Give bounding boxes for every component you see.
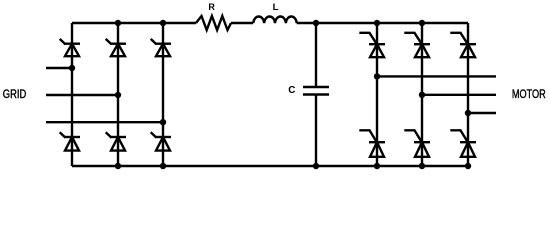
capacitor C (303, 23, 329, 166)
junction bottom rail / inverter leg3 (465, 163, 471, 169)
wire rectifier leg 1 (71, 23, 73, 166)
junction bottom rail / inverter leg1 (374, 163, 380, 169)
junction bottom rail / rectifier leg3 (160, 163, 166, 169)
wire bottom DC rail (72, 165, 468, 167)
wire motor phase 1 (377, 75, 496, 77)
wire between R and L (231, 22, 253, 24)
thyristor T4 (rectifier leg1 bottom) (60, 132, 80, 150)
junction top rail / inverter leg2 (419, 20, 425, 26)
junction grid phase A / leg1 (69, 65, 75, 71)
wire grid phase C (46, 121, 163, 123)
wire rectifier leg 3 (162, 23, 164, 166)
switch S3 (inverter leg3 top) (450, 33, 476, 57)
switch S2 (inverter leg2 top) (404, 33, 430, 57)
wire grid phase A (46, 67, 72, 69)
wire inverter leg 2 (421, 23, 423, 166)
wire top DC rail right section (297, 22, 468, 24)
thyristor T5 (rectifier leg2 bottom) (106, 132, 126, 150)
svg-text:R: R (208, 2, 215, 12)
junction motor phase 1 / inverter leg1 (374, 73, 380, 79)
junction bottom rail / inverter leg2 (419, 163, 425, 169)
junction top rail / rectifier leg3 (160, 20, 166, 26)
junction grid phase B / leg2 (115, 92, 121, 98)
wire inverter leg 3 (467, 23, 469, 166)
wire top DC rail left section (72, 22, 196, 24)
wire motor phase 2 (422, 94, 496, 96)
thyristor T1 (rectifier leg1 top) (60, 39, 80, 56)
svg-text:L: L (273, 2, 279, 13)
wire rectifier leg 2 (117, 23, 119, 166)
wire inverter leg 1 (376, 23, 378, 166)
switch S4 (inverter leg1 bottom) (359, 130, 385, 157)
thyristor T6 (rectifier leg3 bottom) (151, 132, 171, 150)
junction bottom rail / rectifier leg2 (115, 163, 121, 169)
junction top rail / capacitor (313, 20, 319, 26)
thyristor T3 (rectifier leg3 top) (151, 39, 171, 56)
junction motor phase 3 / inverter leg3 (465, 110, 471, 116)
switch S1 (inverter leg1 top) (359, 33, 385, 57)
junction grid phase C / leg3 (160, 119, 166, 125)
svg-text:MOTOR: MOTOR (512, 87, 546, 101)
resistor R (196, 16, 231, 30)
junction top rail / inverter leg1 (374, 20, 380, 26)
wire motor phase 3 (468, 112, 496, 114)
junction motor phase 2 / inverter leg2 (419, 92, 425, 98)
svg-text:GRID: GRID (3, 89, 26, 101)
junction top rail / rectifier leg2 (115, 20, 121, 26)
svg-text:C: C (288, 85, 295, 96)
thyristor T2 (rectifier leg2 top) (106, 39, 126, 56)
switch S5 (inverter leg2 bottom) (404, 130, 430, 157)
junction bottom rail / capacitor (313, 163, 319, 169)
inductor L (253, 17, 296, 24)
switch S6 (inverter leg3 bottom) (450, 130, 476, 157)
wire grid phase B (46, 94, 118, 96)
